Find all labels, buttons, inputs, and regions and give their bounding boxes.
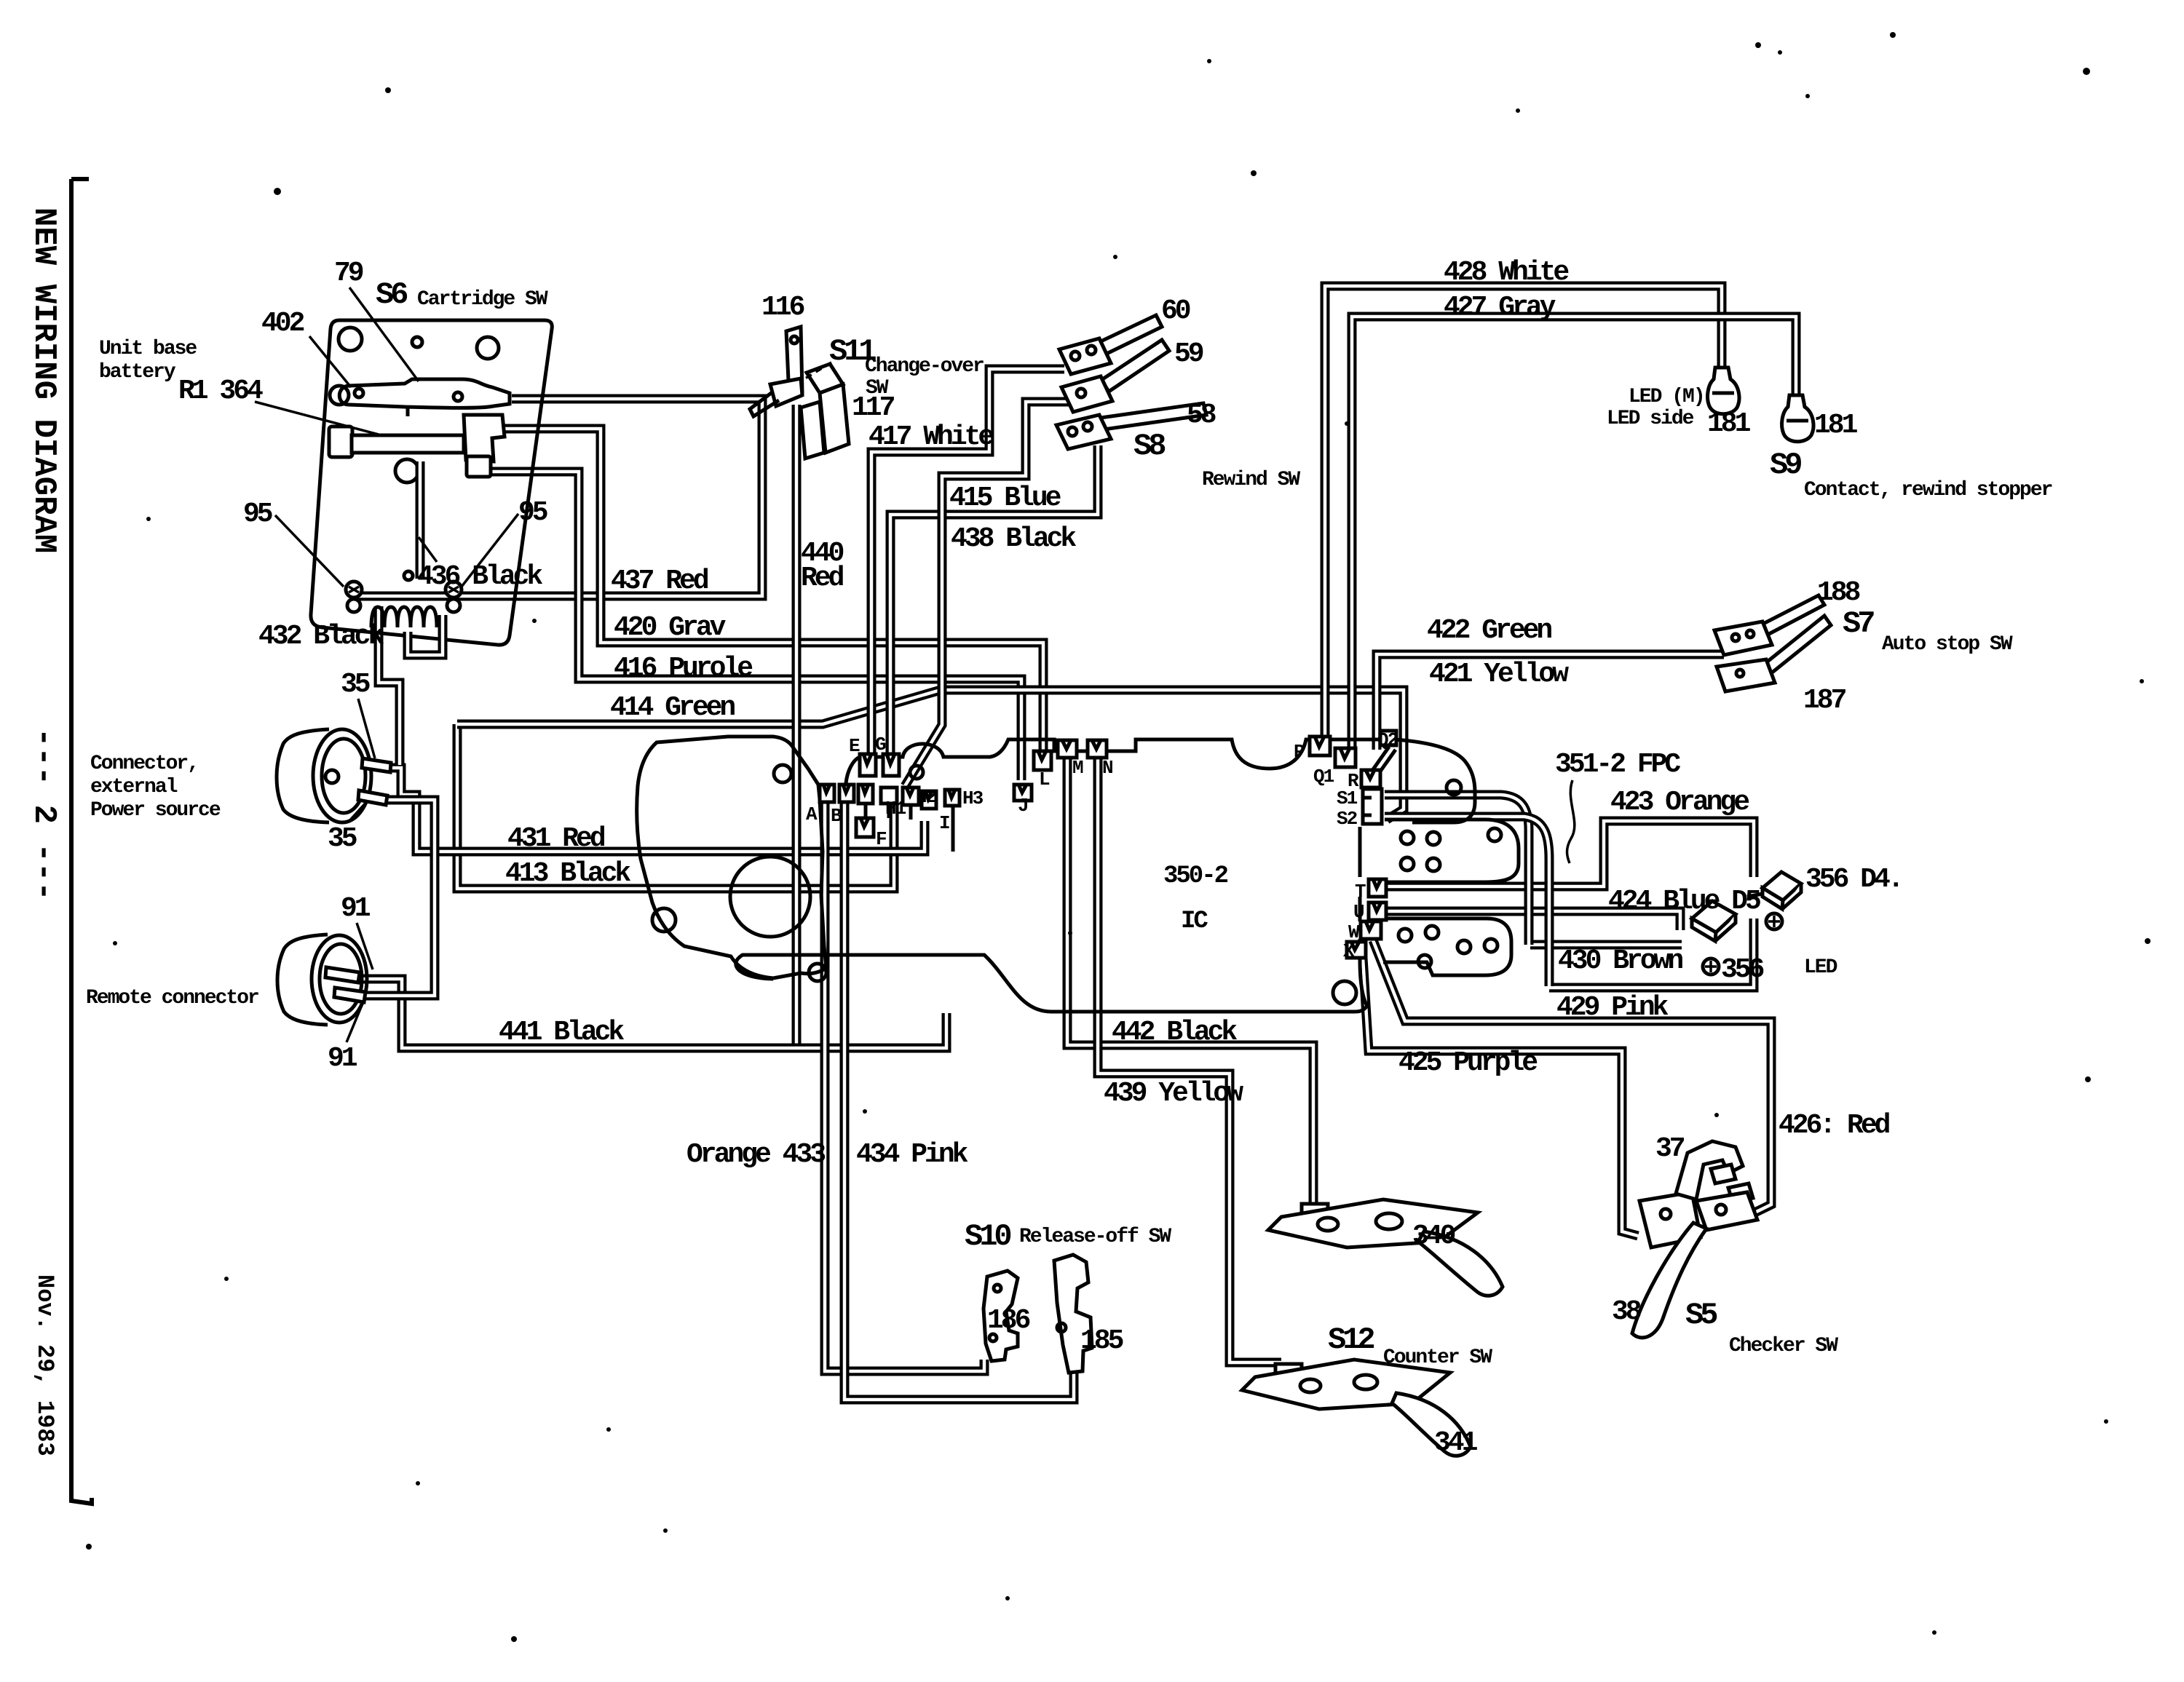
svg-text:X: X	[1343, 940, 1355, 962]
svg-text:I: I	[939, 812, 949, 834]
svg-text:441 Black: 441 Black	[499, 1017, 624, 1048]
checker switch lever 37	[1639, 1141, 1753, 1247]
wire 413 Black (tab H1 loop)	[457, 724, 894, 889]
wire 428 White (tab P to LED 181)	[1325, 286, 1722, 739]
wire 417 White (change-over SW to tab E)	[871, 369, 1064, 755]
svg-text:S7: S7	[1843, 606, 1874, 641]
motor chassis outline	[637, 737, 826, 981]
svg-text:LED side: LED side	[1607, 408, 1694, 430]
svg-text:Release-off SW: Release-off SW	[1019, 1226, 1171, 1248]
battery spring coil	[371, 607, 437, 627]
svg-text:T: T	[1355, 881, 1366, 903]
wire 415 Blue (rewind SW S8 to tab G)	[890, 445, 1098, 755]
svg-text:J: J	[1018, 795, 1028, 817]
wire 423 Orange (tab T to diode D4)	[1386, 821, 1754, 886]
svg-text:187: 187	[1803, 685, 1846, 716]
checker switch S5	[1632, 1192, 1757, 1338]
svg-text:S10: S10	[965, 1219, 1010, 1254]
svg-text:431 Red: 431 Red	[507, 823, 605, 854]
svg-text:S2: S2	[1337, 808, 1358, 830]
svg-text:356: 356	[1721, 954, 1764, 985]
svg-text:427 Gray: 427 Gray	[1444, 292, 1556, 323]
tab T	[1369, 879, 1386, 897]
release-off switch contact 186	[984, 1271, 1018, 1361]
svg-text:Contact, rewind stopper: Contact, rewind stopper	[1804, 479, 2052, 501]
wire remote connector lower pin link	[362, 800, 435, 996]
svg-text:434 Pink: 434 Pink	[856, 1139, 968, 1170]
svg-text:P: P	[1294, 741, 1305, 763]
svg-text:116: 116	[761, 292, 804, 323]
tab R	[1361, 770, 1380, 788]
wire 416 Purple (R1 tab to tab J)	[491, 472, 1021, 780]
cartridge switch S6 bar	[330, 379, 510, 416]
svg-text:M: M	[1072, 757, 1083, 779]
svg-text:421 Yellow: 421 Yellow	[1429, 659, 1569, 690]
tab H2	[903, 788, 919, 805]
remote connector 91	[277, 935, 367, 1025]
svg-text:60: 60	[1161, 295, 1190, 327]
svg-text:416 Purole: 416 Purole	[614, 653, 752, 684]
wire 442 Black (tab M to counter SW 340)	[1067, 758, 1313, 1208]
svg-text:436 Black: 436 Black	[417, 561, 542, 592]
svg-text:425 Purple: 425 Purple	[1398, 1047, 1537, 1079]
battery contact 95 left	[346, 582, 362, 612]
svg-text:38: 38	[1612, 1296, 1641, 1328]
svg-text:G: G	[875, 734, 886, 755]
change-over switch S11 bracket 116	[750, 327, 802, 448]
tab Q1	[1335, 748, 1356, 767]
wire 429 Pink (FPC to diode D4 anode)	[1549, 919, 1754, 988]
tab J	[1014, 785, 1032, 801]
wire 425 Purple (tab X to checker SW 37)	[1363, 958, 1638, 1236]
svg-text:35: 35	[328, 823, 357, 854]
svg-text:U: U	[1353, 901, 1364, 923]
svg-text:IC: IC	[1181, 908, 1208, 935]
leader 351-2 FPC (wavy)	[1567, 780, 1575, 863]
svg-text:79: 79	[334, 258, 363, 289]
svg-text:S9: S9	[1770, 448, 1801, 483]
tab E	[860, 754, 876, 776]
svg-text:181: 181	[1707, 408, 1751, 440]
svg-text:Unit base: Unit base	[99, 338, 197, 360]
battery contact 95 right	[446, 582, 462, 612]
svg-text:LED: LED	[1804, 956, 1837, 979]
tab I	[922, 791, 936, 809]
svg-text:415 Blue: 415 Blue	[949, 483, 1061, 514]
FPC lower plate	[1380, 919, 1511, 975]
diode 356 D4	[1747, 872, 1801, 929]
svg-text:422 Green: 422 Green	[1427, 615, 1551, 646]
svg-text:Connector,: Connector,	[90, 753, 198, 775]
left bracket	[71, 179, 92, 1504]
svg-text:413 Black: 413 Black	[505, 858, 630, 889]
wire 424 Blue (tab U to diode D5)	[1386, 911, 1680, 930]
svg-text:S5: S5	[1685, 1298, 1717, 1333]
LED contact 181 right (S9)	[1782, 395, 1813, 442]
svg-text:117: 117	[852, 392, 895, 424]
wire 434 Pink (tab B to release-off SW 185)	[844, 801, 1074, 1400]
svg-text:S6: S6	[376, 277, 407, 312]
tab W	[1361, 921, 1381, 939]
svg-text:432 Black: 432 Black	[258, 621, 384, 652]
svg-text:A: A	[806, 804, 818, 825]
svg-text:R1 364: R1 364	[178, 376, 263, 407]
wire 439 Yellow (tab N to counter SW 341)	[1098, 758, 1281, 1362]
svg-text:402: 402	[261, 308, 304, 339]
svg-text:350-2: 350-2	[1163, 862, 1228, 890]
svg-text:426: Red: 426: Red	[1779, 1110, 1890, 1141]
tab U	[1369, 903, 1386, 920]
svg-text:423 Orange: 423 Orange	[1610, 787, 1749, 818]
tab Q2	[1380, 731, 1396, 745]
LED contact 181 left (S9)	[1708, 368, 1739, 414]
wire 420 Gray (R1 to tab L)	[492, 429, 1043, 750]
svg-text:Nov. 29, 1983: Nov. 29, 1983	[31, 1274, 58, 1456]
svg-text:188: 188	[1817, 577, 1860, 608]
svg-text:L: L	[1039, 769, 1050, 790]
svg-text:S12: S12	[1328, 1322, 1374, 1357]
svg-text:351-2 FPC: 351-2 FPC	[1555, 749, 1680, 780]
svg-text:35: 35	[341, 669, 370, 700]
rewind switch lever 59	[1061, 340, 1169, 412]
FPC upper plate	[1385, 820, 1519, 882]
svg-text:F: F	[876, 828, 887, 850]
wire FPC ribbon conductor 1	[1385, 795, 1529, 945]
wire 437 Red (battery contact to S6 via loop)	[355, 399, 762, 611]
svg-text:181: 181	[1814, 410, 1858, 441]
svg-text:NEW WIRING DIAGRAM: NEW WIRING DIAGRAM	[25, 207, 62, 553]
tab P	[1310, 737, 1330, 755]
tabs S1 S2	[1363, 789, 1382, 824]
svg-text:438 Black: 438 Black	[951, 523, 1076, 555]
svg-text:430 Brown: 430 Brown	[1558, 945, 1682, 977]
tab B	[839, 785, 854, 802]
svg-text:37: 37	[1655, 1133, 1685, 1165]
diode 356 D5	[1692, 901, 1736, 975]
svg-text:59: 59	[1174, 338, 1203, 370]
svg-text:341: 341	[1434, 1427, 1478, 1459]
tab N	[1088, 740, 1107, 758]
svg-text:439 Yellow: 439 Yellow	[1104, 1078, 1243, 1109]
svg-text:91: 91	[341, 893, 371, 924]
svg-text:Change-over: Change-over	[865, 355, 984, 378]
svg-text:H1: H1	[885, 798, 906, 820]
svg-text:Orange 433: Orange 433	[687, 1139, 825, 1170]
wire 432 Black (battery to power connector)	[379, 606, 400, 765]
svg-text:Cartridge SW: Cartridge SW	[417, 288, 548, 311]
svg-text:E: E	[849, 735, 860, 757]
leader R1 364	[255, 402, 379, 435]
svg-text:429 Pink: 429 Pink	[1556, 992, 1669, 1023]
wire 440 Red (change-over SW down)	[792, 445, 802, 1048]
svg-text:Checker SW: Checker SW	[1729, 1335, 1838, 1357]
wire R to Q2	[1372, 747, 1396, 774]
tab C	[858, 785, 873, 804]
svg-text:95: 95	[243, 499, 272, 530]
svg-text:N: N	[1102, 757, 1112, 779]
svg-text:LED (M): LED (M)	[1629, 386, 1704, 408]
wire 426 Red (tab W to checker SW S5)	[1373, 940, 1771, 1217]
wire 430 Brown (FPC to diode D5)	[1530, 940, 1682, 950]
wire 431 Red (power connector to tab I)	[389, 768, 925, 852]
counter switch 340	[1268, 1199, 1503, 1296]
svg-text:437 Red: 437 Red	[611, 566, 708, 597]
tab A	[820, 785, 834, 802]
wire 414 Green / 421 Yellow (to tab S2)	[457, 690, 1404, 820]
wire 422 Green (tab R to auto stop SW 188)	[1377, 654, 1724, 750]
svg-text:Counter SW: Counter SW	[1383, 1346, 1492, 1369]
connector external power source 35	[277, 729, 391, 822]
svg-text:B: B	[831, 805, 842, 827]
unit base battery plate 402	[311, 320, 552, 645]
counter switch 341	[1242, 1360, 1471, 1456]
wire 441 Black (remote connector to board)	[360, 979, 946, 1048]
tab L	[1034, 751, 1051, 770]
svg-text:420 Grav: 420 Grav	[614, 612, 727, 643]
tab F	[856, 818, 874, 837]
svg-text:Q2: Q2	[1377, 729, 1398, 751]
IC board 350-2 outline	[736, 739, 1475, 1012]
svg-text:356 D4.: 356 D4.	[1805, 864, 1902, 895]
svg-text:--- 2 ---: --- 2 ---	[25, 728, 62, 901]
rewind switch lever 58 (S8)	[1056, 403, 1206, 449]
svg-text:Q1: Q1	[1313, 766, 1334, 788]
svg-text:Rewind SW: Rewind SW	[1202, 469, 1300, 491]
svg-text:428 White: 428 White	[1444, 257, 1568, 288]
svg-text:battery: battery	[99, 361, 176, 384]
auto stop switch contact 188	[1714, 595, 1824, 655]
svg-text:95: 95	[518, 497, 547, 528]
svg-text:Remote connector: Remote connector	[86, 987, 258, 1009]
svg-text:H3: H3	[962, 788, 984, 809]
svg-text:417 White: 417 White	[869, 421, 993, 453]
wire 427 Gray (tab Q1 to LED 181)	[1352, 317, 1796, 747]
pin stubs below tabs C H1	[866, 804, 953, 852]
svg-text:442 Black: 442 Black	[1112, 1017, 1237, 1048]
release-off switch contact 185	[1054, 1255, 1092, 1373]
tab H1	[881, 788, 897, 804]
wire FPC ribbon conductor 2	[1385, 817, 1549, 986]
svg-text:Auto stop SW: Auto stop SW	[1882, 633, 2013, 656]
battery resistor R1	[329, 415, 505, 477]
svg-text:340: 340	[1412, 1221, 1455, 1252]
svg-text:186: 186	[987, 1305, 1030, 1336]
svg-text:Power source: Power source	[90, 799, 221, 822]
wire 433 Orange (tab A to release-off SW 186)	[825, 801, 984, 1371]
svg-text:S1: S1	[1337, 788, 1358, 809]
svg-text:H2: H2	[916, 786, 937, 808]
rewind switch lever 60	[1059, 315, 1162, 374]
svg-text:414 Green: 414 Green	[610, 692, 735, 723]
auto stop switch contact 187	[1717, 616, 1831, 691]
svg-text:424 Blue D5: 424 Blue D5	[1608, 886, 1760, 917]
tab G	[883, 754, 899, 776]
leader 402	[309, 336, 351, 387]
svg-text:58: 58	[1187, 400, 1216, 431]
svg-text:91: 91	[328, 1043, 357, 1074]
leader 79	[349, 287, 419, 381]
tab X	[1347, 942, 1366, 958]
battery PCB traces	[416, 461, 425, 579]
change-over switch piece 117	[801, 364, 849, 459]
svg-text:external: external	[90, 776, 178, 798]
svg-text:S8: S8	[1133, 429, 1165, 464]
leader S11 (dashed)	[805, 362, 831, 378]
svg-text:Red: Red	[801, 563, 844, 594]
wire 438 Black (lever 59 to tab H2)	[905, 402, 1069, 786]
tab M	[1058, 740, 1077, 758]
svg-text:185: 185	[1080, 1325, 1123, 1357]
tab H3	[945, 790, 960, 806]
